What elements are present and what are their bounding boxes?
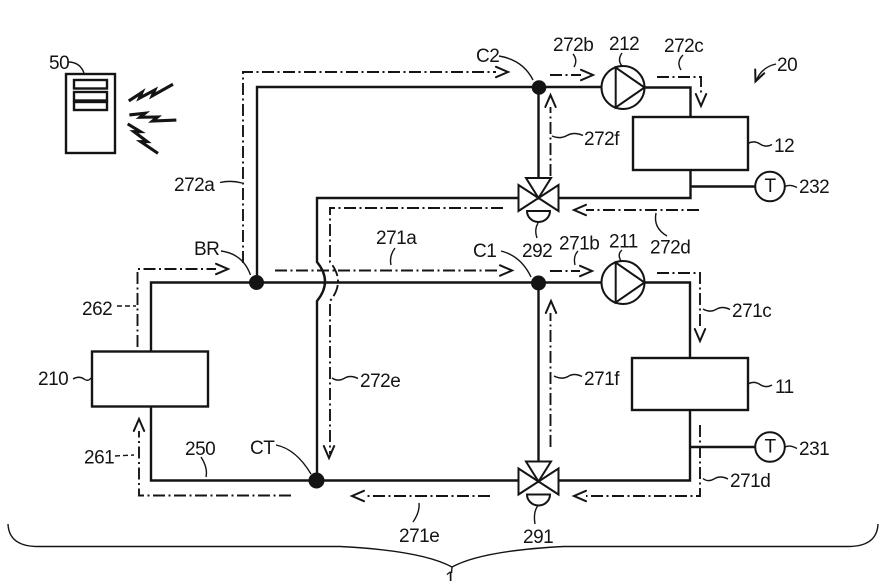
- svg-text:262: 262: [82, 299, 112, 320]
- svg-text:271f: 271f: [584, 369, 620, 390]
- svg-text:1: 1: [445, 569, 455, 581]
- svg-text:271e: 271e: [399, 526, 439, 547]
- svg-text:291: 291: [523, 527, 553, 548]
- svg-text:212: 212: [609, 34, 639, 55]
- svg-text:292: 292: [522, 241, 552, 262]
- svg-text:C2: C2: [476, 46, 499, 67]
- svg-text:261: 261: [84, 448, 114, 469]
- svg-text:272b: 272b: [553, 35, 593, 56]
- svg-text:20: 20: [777, 55, 797, 76]
- svg-text:11: 11: [775, 377, 794, 398]
- svg-text:232: 232: [799, 177, 829, 198]
- svg-text:272a: 272a: [174, 175, 215, 196]
- svg-text:271a: 271a: [376, 228, 417, 249]
- svg-text:271d: 271d: [730, 471, 770, 492]
- svg-text:272e: 272e: [360, 371, 400, 392]
- svg-text:CT: CT: [250, 438, 275, 459]
- svg-text:BR: BR: [194, 239, 219, 260]
- svg-text:272c: 272c: [664, 36, 703, 57]
- svg-text:T: T: [764, 437, 776, 458]
- svg-text:12: 12: [774, 136, 794, 157]
- svg-text:210: 210: [38, 369, 68, 390]
- svg-text:272d: 272d: [650, 238, 690, 259]
- svg-text:50: 50: [49, 53, 69, 74]
- svg-text:272f: 272f: [584, 129, 620, 150]
- svg-text:271c: 271c: [732, 301, 771, 322]
- svg-text:231: 231: [799, 439, 829, 460]
- svg-text:C1: C1: [473, 241, 496, 262]
- svg-text:T: T: [764, 176, 776, 197]
- svg-text:211: 211: [609, 232, 638, 253]
- svg-text:271b: 271b: [559, 234, 599, 255]
- svg-text:250: 250: [185, 439, 215, 460]
